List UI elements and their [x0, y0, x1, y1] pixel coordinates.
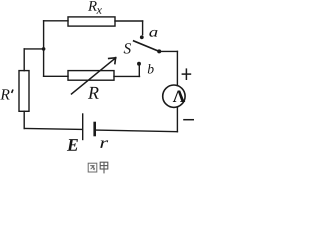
wire junction stub to R' [24, 48, 43, 50]
wire top right horizontal [115, 20, 143, 22]
wire right vertical lower [176, 107, 178, 132]
battery long plate E [82, 114, 84, 140]
rheostat R arrowhead [109, 57, 116, 60]
ammeter symbol A [173, 90, 185, 102]
wire R' lower vertical [23, 111, 25, 128]
switch S arm [134, 41, 160, 52]
caption glyph tu (figure) [88, 163, 97, 172]
label r [100, 140, 108, 148]
label a [149, 30, 157, 37]
wire drop to contact a [142, 21, 144, 35]
label R prime [0, 89, 9, 99]
rheostat R arrow shaft [72, 58, 116, 94]
battery short plate r [93, 123, 96, 135]
rheostat R box [68, 71, 114, 81]
node junction dot [42, 47, 46, 51]
caption glyph jia (first) [100, 162, 108, 173]
label b [148, 64, 154, 73]
label R rheostat [88, 87, 99, 99]
label E [67, 139, 78, 151]
wire bottom left horizontal [24, 128, 82, 129]
switch pivot dot [157, 49, 161, 53]
resistor R' [19, 71, 29, 112]
wire pivot to top right corner [159, 50, 177, 52]
wire right vertical upper [176, 51, 178, 85]
wire left vertical [43, 21, 45, 77]
resistor Rx [68, 17, 115, 26]
label minus [183, 119, 194, 121]
wire rise to contact b [138, 66, 140, 77]
label S [124, 43, 131, 53]
ammeter A circle [163, 85, 185, 107]
wire top-left horizontal [44, 20, 68, 22]
wire bottom right horizontal [96, 130, 177, 132]
label Rx [88, 1, 97, 11]
switch contact b dot [137, 62, 141, 66]
label plus [182, 68, 192, 80]
wire R' upper vertical [23, 49, 25, 71]
wire middle horizontal to R [44, 75, 68, 77]
wire from R to contact b [114, 75, 140, 77]
switch contact a dot [140, 35, 144, 39]
